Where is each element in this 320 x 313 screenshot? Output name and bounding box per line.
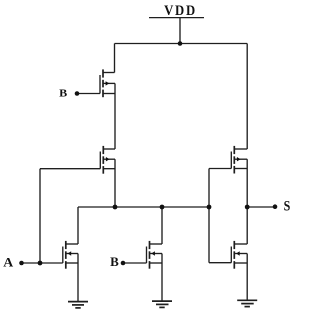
svg-text:B: B [59, 88, 68, 99]
svg-text:S: S [284, 197, 291, 214]
svg-text:A: A [3, 255, 13, 269]
svg-text:VDD: VDD [164, 2, 197, 18]
svg-text:B: B [110, 254, 119, 269]
